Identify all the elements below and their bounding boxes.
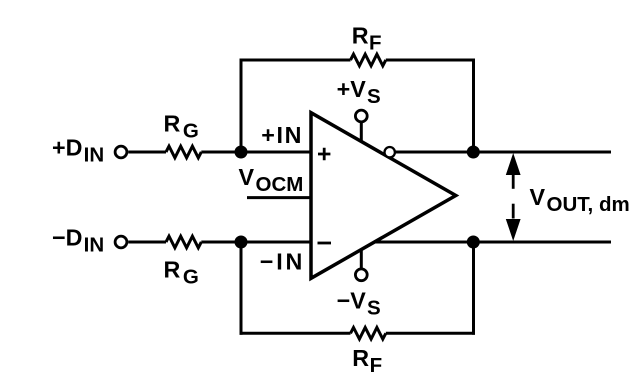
wire feedback bottom horizontal left — [240, 332, 351, 335]
svg-text:−IN: −IN — [260, 249, 305, 275]
wire +DIN terminal to RG — [128, 151, 166, 154]
resistor RG (bottom) — [166, 236, 201, 248]
wire feedback bottom-right vertical — [472, 242, 475, 335]
wire RG to op-amp -IN — [201, 241, 311, 244]
wire feedback top-right vertical — [472, 59, 475, 153]
node -OUT junction — [467, 236, 480, 249]
minus marker inside op-amp — [318, 242, 332, 245]
wire -DIN terminal to RG — [128, 241, 166, 244]
arrow up VOUT dm — [506, 153, 521, 189]
supply -VS circle — [355, 269, 367, 281]
output pin circle +OUT — [385, 147, 395, 157]
wire -OUT line — [374, 241, 611, 244]
wire feedback top horizontal right — [386, 59, 475, 62]
wire feedback bottom-left vertical — [240, 242, 243, 335]
wire +VS stub — [360, 122, 363, 142]
resistor RG (top) — [166, 146, 201, 158]
arrow down VOUT dm — [506, 204, 521, 241]
resistor RF (top) — [351, 54, 386, 66]
wire +OUT line — [395, 151, 611, 154]
wire feedback top-left vertical — [240, 59, 243, 153]
wire feedback top horizontal left — [240, 59, 351, 62]
svg-text:+IN: +IN — [261, 122, 303, 148]
wire -VS stub — [360, 249, 363, 269]
node -IN junction — [235, 236, 248, 249]
resistor RF (bottom) — [351, 328, 386, 340]
op-amp U1 triangle — [311, 113, 456, 279]
plus marker inside op-amp — [318, 148, 330, 160]
node +OUT junction — [467, 146, 480, 159]
terminal +DIN input — [115, 146, 127, 158]
terminal -DIN input — [115, 236, 127, 248]
wire RG to op-amp +IN — [201, 151, 311, 154]
node +IN junction — [235, 146, 248, 159]
wire feedback bottom horizontal right — [386, 332, 475, 335]
wire VOCM input stub — [247, 196, 311, 199]
supply +VS circle — [355, 110, 367, 122]
